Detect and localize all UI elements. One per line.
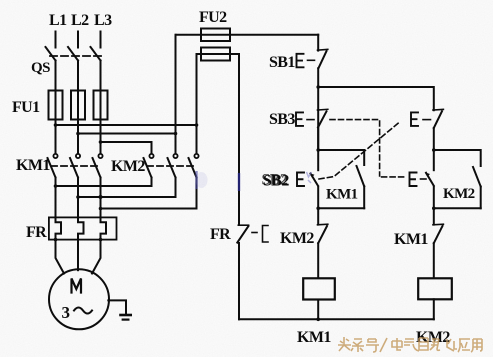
- pushbutton SB2 NC contact (right branch): [411, 112, 418, 126]
- svg-text:KM1: KM1: [394, 231, 428, 248]
- wire join phase1 row: [56, 185, 152, 187]
- pushbutton SB1 (NC stop): [317, 35, 319, 51]
- svg-text:L1: L1: [49, 12, 67, 29]
- fuse FU2-1: [201, 29, 230, 42]
- svg-text:SB1: SB1: [269, 54, 295, 71]
- svg-text:SB2: SB2: [263, 173, 289, 190]
- fuse FU1-3: [94, 91, 108, 120]
- svg-text:L3: L3: [94, 12, 112, 29]
- ground: [121, 314, 131, 317]
- self-hold KM2 aux contact box: [434, 150, 481, 166]
- wire phase2 to KM2 col2: [78, 133, 176, 135]
- svg-text:KM2: KM2: [443, 186, 475, 202]
- wire QS to FU1 pole3: [100, 61, 102, 91]
- wire phase3 to KM2 col1: [101, 141, 152, 143]
- svg-text:L2: L2: [71, 12, 89, 29]
- wire right branch between SB2NC and box: [433, 128, 435, 170]
- wire FU2 top: main tap to SB1 branch: [177, 34, 319, 36]
- node branch to KM2 column: [316, 85, 320, 89]
- fuse FU1-1: [49, 91, 63, 120]
- FR control NC contact: [238, 224, 248, 226]
- control left rail from FU2-2: [238, 54, 240, 225]
- FR heater element 3: [101, 220, 107, 240]
- ground wire: [108, 300, 126, 314]
- QS linkage dashed line: [50, 55, 101, 57]
- svg-text:KM2: KM2: [111, 158, 145, 175]
- wire QS to FU1 pole1: [55, 61, 57, 91]
- FR heater element 1: [56, 220, 62, 240]
- wire phase1 to KM2 col3: [56, 124, 197, 126]
- wire right branch to interlock: [433, 208, 435, 224]
- pushbutton SB3 NO contact (right branch): [410, 173, 417, 187]
- SB2 diagonal linkage: [319, 123, 399, 180]
- coil KM2: [418, 278, 452, 299]
- wire phase3 down: [100, 120, 102, 154]
- wire FU2-2 left drop to KM2 col3: [196, 54, 198, 154]
- wire FR to motor 3: [92, 240, 101, 274]
- svg-text:KM1: KM1: [326, 187, 358, 203]
- wire FU2 bottom: [197, 53, 240, 55]
- wire left branch between SB3 and box: [317, 127, 319, 170]
- switch QS pole 1: [46, 47, 56, 61]
- switch QS pole 3: [91, 47, 101, 61]
- wire KM2 col1 drop: [151, 142, 153, 154]
- svg-text:QS: QS: [31, 60, 50, 76]
- svg-text:3: 3: [62, 303, 70, 322]
- thermal relay FR box: [49, 217, 117, 239]
- coil KM1: [303, 278, 335, 299]
- interlock KM2 NC contact (left branch): [318, 223, 328, 226]
- blue watermark remnants: [196, 171, 312, 191]
- wire L2 stub: [77, 32, 79, 48]
- KM2 linkage dashes: [147, 165, 197, 167]
- svg-text:FR: FR: [26, 224, 47, 241]
- left rail continues: [238, 243, 240, 319]
- wire left branch to interlock: [317, 208, 319, 224]
- interlock KM1 NC contact (right branch): [433, 223, 443, 226]
- wire FR to motor 2: [77, 240, 79, 271]
- KM1 linkage dashes: [51, 165, 101, 167]
- svg-text:KM2: KM2: [280, 230, 314, 247]
- wire join phase2 row: [78, 196, 176, 198]
- wire FR to motor 1: [56, 240, 65, 274]
- fuse FU2-2: [201, 48, 230, 61]
- svg-text:FU2: FU2: [199, 9, 227, 26]
- wire L1 stub: [55, 32, 57, 48]
- svg-text:FU1: FU1: [12, 99, 40, 116]
- watermark 头条号 / 电气自动化应用: [338, 337, 482, 352]
- svg-text:FR: FR: [210, 226, 231, 243]
- svg-text:SB3: SB3: [269, 111, 295, 128]
- svg-text:KM1: KM1: [16, 157, 50, 174]
- wire L3 stub: [100, 32, 102, 48]
- contactor KM2 main contact 2: [173, 154, 177, 158]
- wire QS to FU1 pole2: [77, 61, 79, 91]
- contactor KM1 main contact 3: [98, 154, 102, 158]
- contactor KM1 main contact 2: [76, 154, 80, 158]
- wire FU2-1 left drop to KM2 col2: [175, 35, 177, 154]
- motor M label: [72, 279, 82, 293]
- wire bottom rail: [239, 318, 434, 320]
- wire KM1 outputs down: [56, 178, 101, 220]
- wire phase1 down: [55, 120, 57, 154]
- switch QS pole 2: [68, 47, 78, 61]
- svg-text:KM1: KM1: [297, 329, 331, 346]
- wire KM2 outputs down: [152, 178, 197, 209]
- wire phase2 down: [77, 120, 79, 154]
- contactor KM2 main contact 1: [149, 154, 153, 158]
- wire branch top: [318, 87, 434, 110]
- self-hold KM1 aux contact box: [318, 150, 364, 165]
- FR heater element 2: [78, 220, 84, 240]
- SB3 linkage dashed elbow: [330, 120, 407, 177]
- motor M circle: [49, 269, 109, 329]
- wire join phase3 row: [101, 208, 197, 210]
- contactor KM1 main contact 1: [53, 154, 57, 158]
- fuse FU1-2: [71, 91, 85, 120]
- contactor KM2 main contact 3: [194, 154, 198, 158]
